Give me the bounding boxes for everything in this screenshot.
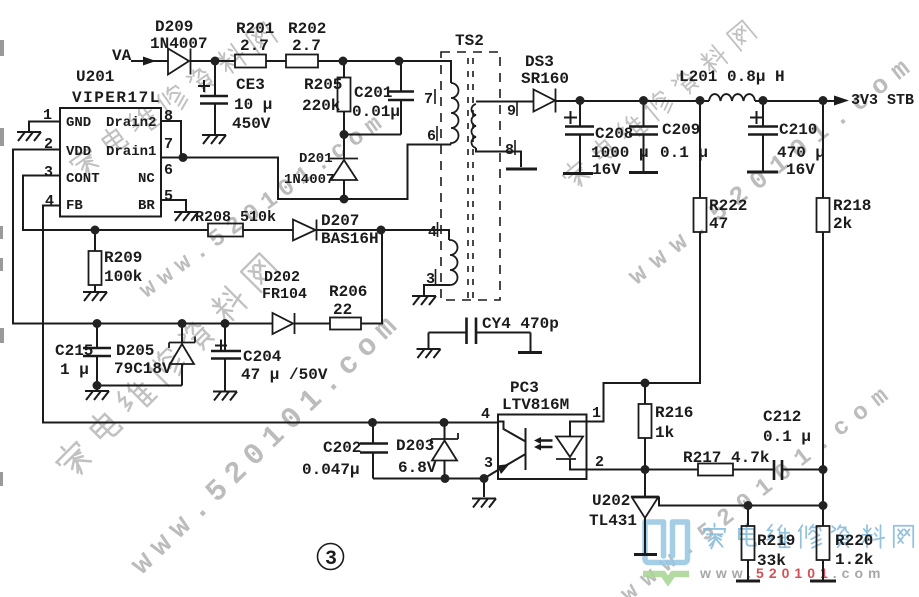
svg-text:R206: R206 [329,283,367,301]
svg-text:CY4 470p: CY4 470p [482,315,559,333]
svg-text:3: 3 [426,271,435,288]
svg-text:5: 5 [164,188,173,205]
svg-text:22: 22 [333,301,352,319]
svg-text:NC: NC [138,171,155,187]
svg-text:D205: D205 [116,342,154,360]
svg-text:79C18V: 79C18V [114,360,172,378]
svg-text:4: 4 [428,224,437,241]
svg-text:4: 4 [481,406,490,423]
svg-text:1N4007: 1N4007 [284,172,334,188]
svg-text:C212: C212 [763,408,801,426]
svg-text:C209: C209 [662,121,700,139]
svg-text:C204: C204 [243,348,282,366]
svg-text:VDD: VDD [66,144,91,160]
svg-text:C215: C215 [55,342,93,360]
svg-text:47: 47 [709,215,728,233]
svg-text:VA: VA [112,47,132,65]
svg-text:R222: R222 [709,197,747,215]
svg-text:3V3 STB: 3V3 STB [851,92,914,109]
svg-text:C201: C201 [354,84,392,102]
svg-text:470 µ: 470 µ [777,144,825,162]
svg-text:450V: 450V [232,115,271,133]
svg-text:33k: 33k [757,552,786,570]
svg-text:R217 4.7k: R217 4.7k [683,449,770,467]
svg-text:8: 8 [505,142,514,159]
svg-text:DS3: DS3 [525,53,554,71]
svg-text:220k: 220k [302,97,341,115]
svg-text:U201: U201 [76,68,114,86]
svg-text:16V: 16V [592,161,621,179]
svg-text:2k: 2k [833,215,853,233]
svg-text:10 µ: 10 µ [234,96,272,114]
svg-text:FB: FB [66,198,83,214]
svg-text:R219: R219 [757,532,795,550]
svg-text:1000 µ: 1000 µ [591,144,649,162]
svg-text:100k: 100k [104,268,143,286]
svg-text:1N4007: 1N4007 [150,35,208,53]
svg-text:3: 3 [325,548,337,571]
svg-text:6: 6 [427,128,436,145]
svg-text:D203: D203 [396,437,434,455]
svg-text:BAS16H: BAS16H [321,230,379,248]
svg-text:3: 3 [44,164,53,181]
svg-text:CE3: CE3 [236,76,265,94]
svg-text:D201: D201 [299,151,333,167]
svg-text:BR: BR [138,198,155,214]
svg-text:TL431: TL431 [589,512,637,530]
svg-text:0.047µ: 0.047µ [302,461,360,479]
svg-text:R201: R201 [236,20,274,38]
svg-text:47 µ /50V: 47 µ /50V [241,366,328,384]
svg-text:0.1 µ: 0.1 µ [763,428,811,446]
svg-text:GND: GND [66,115,91,131]
svg-text:8: 8 [164,108,173,125]
svg-text:0.01µ: 0.01µ [352,103,400,121]
svg-text:2: 2 [595,454,604,471]
svg-text:LTV816M: LTV816M [502,396,569,414]
svg-text:TS2: TS2 [455,32,484,50]
svg-text:1k: 1k [655,424,675,442]
svg-text:7: 7 [164,136,173,153]
svg-text:1: 1 [592,405,601,422]
svg-text:1 µ: 1 µ [60,361,89,379]
svg-text:4: 4 [45,193,54,210]
svg-text:VIPER17L: VIPER17L [72,89,161,107]
svg-text:R218: R218 [833,197,871,215]
svg-text:C210: C210 [779,121,817,139]
svg-text:U202: U202 [592,492,630,510]
svg-text:PC3: PC3 [510,379,539,397]
svg-text:L201 0.8µ H: L201 0.8µ H [679,68,785,86]
svg-text:2.7: 2.7 [240,37,269,55]
svg-text:D207: D207 [321,212,359,230]
svg-text:C208: C208 [595,125,633,143]
svg-text:1.2k: 1.2k [835,551,874,569]
svg-text:SR160: SR160 [521,70,569,88]
svg-text:9: 9 [507,103,516,120]
svg-text:R216: R216 [655,404,693,422]
svg-text:3: 3 [484,455,493,472]
svg-text:C202: C202 [323,439,361,457]
svg-text:2.7: 2.7 [292,37,321,55]
svg-text:FR104: FR104 [262,286,307,303]
svg-text:R208 510k: R208 510k [195,209,276,226]
svg-text:R220: R220 [835,532,873,550]
svg-text:1: 1 [43,107,52,124]
svg-text:R202: R202 [288,20,326,38]
svg-text:Drain1: Drain1 [106,144,156,160]
svg-text:D202: D202 [264,269,300,286]
svg-text:7: 7 [424,91,433,108]
svg-text:Drain2: Drain2 [106,115,156,131]
svg-text:0.1 µ: 0.1 µ [660,144,708,162]
svg-text:6.8V: 6.8V [398,459,437,477]
svg-text:D209: D209 [155,18,193,36]
svg-text:2: 2 [44,136,53,153]
svg-text:CONT: CONT [66,171,100,187]
svg-text:6: 6 [164,162,173,179]
svg-text:16V: 16V [786,161,815,179]
svg-text:R209: R209 [104,249,142,267]
svg-text:R205: R205 [304,76,342,94]
